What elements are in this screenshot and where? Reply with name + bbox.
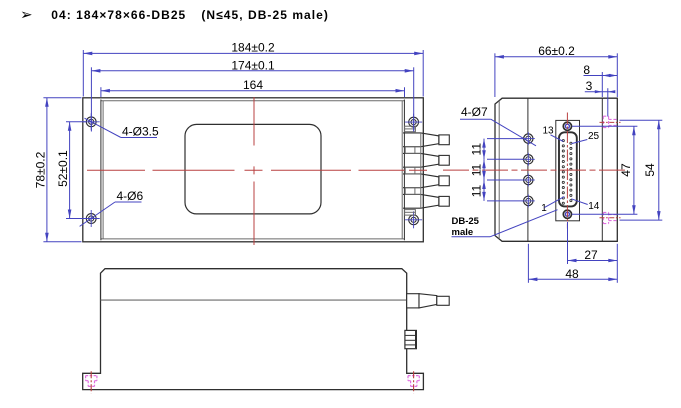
dimension 174±0.1 [91,58,413,131]
label pin 25 with leader [572,131,600,144]
label pin 1 with leader [541,197,564,214]
top view: fiber output connector 2 [403,153,449,167]
top view: cover inner bottom edge [101,238,404,240]
dimension 54 [620,120,663,220]
svg-text:1: 1 [541,203,547,214]
svg-text:174±0.1: 174±0.1 [231,58,275,72]
top view: cover right edge double line [403,100,405,241]
top view: bottom-right screw hole [405,211,422,228]
top view: fiber output connector 4 [403,194,449,208]
svg-text:47: 47 [619,163,633,177]
end view: DB-25 mounting flange rect [556,120,580,220]
top view: top-left screw hole [83,113,100,130]
svg-text:184±0.2: 184±0.2 [231,41,275,55]
label DB-25 male with leader [452,210,558,238]
svg-text:14: 14 [588,201,600,212]
end view: inner vertical edge (8mm step) [601,98,603,241]
side view: fiber connector (right) [407,294,449,308]
top view: cover inner top edge [101,100,404,102]
top view: spacer block between fingers 1 and 2 [405,147,421,154]
end view: fiber port circle 3 [522,174,535,187]
svg-text:4-Ø7: 4-Ø7 [461,105,488,119]
11mm pitch chain dimension [470,139,523,201]
side view: DB-25 connector edge-on [405,330,417,348]
end view: fiber port circle 2 [522,153,535,166]
svg-text:27: 27 [584,248,598,262]
label 4-Ø3.5 with leader [85,118,160,138]
top view: bracket above finger 1 [405,126,416,132]
end view: fiber port circle 4 [522,194,535,207]
end view: DB-25 top jack screw [563,122,571,130]
top view: top-right screw hole [405,114,422,131]
end view: left edge inner line [498,101,500,240]
top view: spacer block between fingers 2 and 3 [405,167,421,174]
svg-text:11: 11 [470,163,484,176]
end view: hidden screw hole top-right (magenta) [600,116,621,127]
end view: fiber port circle 1 [522,132,535,145]
end view: DB-25 pins left column (13) [562,140,564,205]
side view: body outline with mounting feet [83,269,424,390]
svg-text:DB-25: DB-25 [452,216,480,227]
dimension 27 [568,222,618,283]
end view: DB-25 shell (D shape) [559,132,577,206]
svg-text:66±0.2: 66±0.2 [538,44,575,58]
svg-text:25: 25 [588,131,600,142]
svg-text:04: 184×78×66-DB25: 04: 184×78×66-DB25 [51,8,186,22]
svg-text:13: 13 [543,126,555,137]
dimension 8 [583,63,617,97]
end view: DB-25 pins right column (12) [570,142,572,202]
end view: DB-25 bottom jack screw [563,210,571,218]
svg-text:48: 48 [565,267,579,281]
dimension 47 [572,126,638,214]
svg-text:11: 11 [470,143,484,156]
label pin 14 with leader [571,199,599,212]
dimension 66±0.2 [495,44,617,97]
end view: body outline [495,98,617,241]
label 4-Ø7 with leader [460,105,536,146]
dimension 48 [528,244,617,283]
svg-text:52±0.1: 52±0.1 [56,150,70,187]
side view: right foot screw centerline [413,371,415,393]
side view: lid seam line [101,299,407,301]
label pin 13 with leader [543,126,564,142]
svg-text:8: 8 [583,63,590,77]
svg-text:4-Ø6: 4-Ø6 [117,189,144,203]
end view: inner vertical edge (fiber plate) [527,98,529,241]
svg-text:164: 164 [243,78,263,92]
end view: hidden screw hole bottom-right (magenta) [600,212,621,223]
side view: left foot screw centerline [90,371,92,393]
dimension 78±0.2 [33,98,81,242]
dimension 52±0.1 [56,122,86,219]
top view: outer body rectangle (base plate 184x78) [83,98,424,242]
svg-text:(N≤45, DB-25 male): (N≤45, DB-25 male) [201,8,329,22]
svg-text:11: 11 [470,184,484,197]
svg-text:➢: ➢ [20,7,33,24]
svg-text:4-Ø3.5: 4-Ø3.5 [122,124,159,138]
top view: vertical center line [253,97,255,245]
top view: cover left edge double line [100,100,102,241]
side view: left foot hidden screw (magenta) [86,376,97,387]
label 4-Ø6 with leader [80,189,144,226]
top view: fiber output connector 3 [403,174,449,188]
dimension 164 [101,78,405,97]
top view: bottom-left screw hole [83,210,100,227]
svg-text:78±0.2: 78±0.2 [33,151,47,188]
dimension 184±0.2 [83,41,423,97]
top view: central rounded cutout [185,124,321,213]
top view: bracket below finger 4 [405,210,416,216]
top view: horizontal center line [87,169,427,171]
top view: fiber output connector 1 [403,133,449,147]
svg-text:3: 3 [586,79,593,93]
svg-text:54: 54 [643,163,657,177]
side view: right foot hidden screw (magenta) [408,376,419,387]
end view: horizontal centerline [443,169,626,171]
dimension 3 [585,79,616,116]
top view: spacer block between fingers 3 and 4 [405,188,421,195]
end view: DB-25 vertical centerline [566,113,568,229]
